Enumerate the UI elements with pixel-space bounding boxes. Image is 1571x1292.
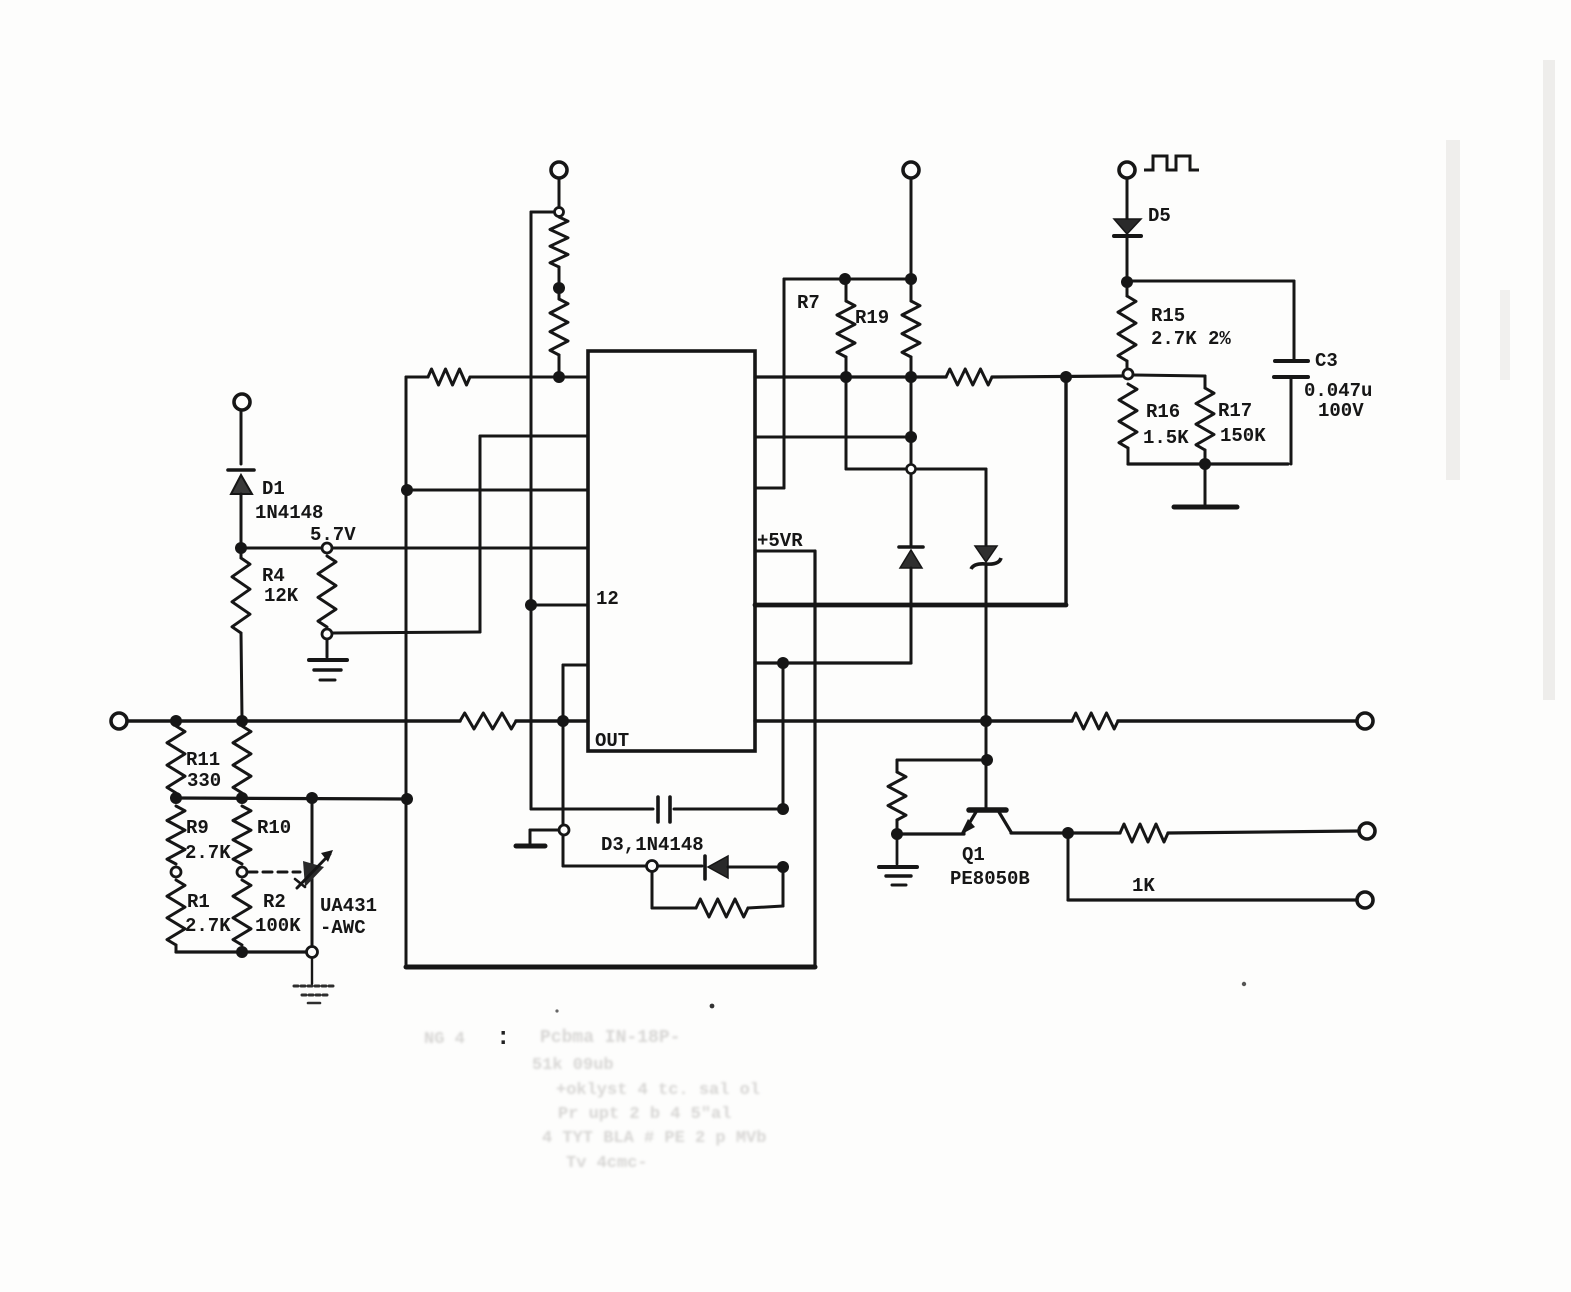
wire (bus y721 left segment) [127,719,460,722]
wire (right loop vertical x815) [813,551,816,967]
terminal P3 (square wave input) [1119,162,1135,178]
resistor (series in y721 bus left) [460,713,516,729]
resistor R9 2.7K [167,806,231,864]
wire (bottom loop y967) [406,965,815,970]
svg-text:100V: 100V [1318,400,1364,422]
wire (pin bus y377 right) [755,375,946,378]
wire (pin y490 of IC) [407,489,588,492]
node (ring x176 y872) [171,867,181,877]
node (ring x564 y830) [559,825,569,835]
node (ring x242 y872) [237,867,247,877]
ground (below R4) [309,660,347,680]
svg-text:100K: 100K [255,915,301,937]
wire (vertical x563 down to D3 net) [562,665,565,866]
wire [992,376,1122,377]
wire [240,410,243,464]
node (junction x911 y279) [905,273,917,285]
wire (pin y437) [755,436,911,439]
node (colon mark) [496,1025,510,1052]
node (junction x563 y721) [557,715,569,727]
wire (vertical x1066) [1064,377,1067,605]
svg-text:R17: R17 [1218,400,1252,422]
resistor (series y721 right) [1072,713,1118,729]
wire (bus y721 to IC OUT) [516,719,588,722]
svg-text:1N4148: 1N4148 [255,502,323,524]
node (junction x845 y279) [839,273,851,285]
resistor (x241 series to divider) [232,548,299,633]
wire [658,865,702,868]
svg-text:PE8050B: PE8050B [950,868,1030,890]
node (square wave symbol) [1144,156,1199,170]
op-amp U1 (control IC box) [588,351,755,752]
svg-text:Q1: Q1 [962,844,985,866]
wire [748,867,783,908]
node (junction x911 y437) [905,431,917,443]
wire [1126,178,1129,219]
regulator UA431-AWC [295,798,377,947]
node (junction x312 y798) [306,792,318,804]
terminal P5 (left output) [111,713,127,729]
svg-text:2.7K: 2.7K [185,842,231,864]
resistor R10 [233,806,291,864]
node (junction x1066 y377) [1060,371,1072,383]
wire (y798 rail) [176,798,407,799]
node (junction x986 y721) [980,715,992,727]
wire [326,639,329,657]
wire (bus y377 into IC) [470,376,588,379]
svg-text:Tv 4cmc-: Tv 4cmc- [566,1154,648,1173]
ground (Q1 emitter) [879,839,917,885]
svg-text:12: 12 [596,588,619,610]
node (junction x987 y760) [981,754,993,766]
node (faint ghost annotation text) [424,1028,766,1173]
svg-text:1.5K: 1.5K [1143,427,1189,449]
svg-text:R2: R2 [263,891,286,913]
diode D5 [1114,205,1171,236]
transistor Q1 PE8050B [950,762,1030,890]
svg-text:R16: R16 [1146,401,1180,423]
svg-text:D3,1N4148: D3,1N4148 [601,834,704,856]
wire (dashed ref line to UA431) [248,871,300,874]
resistor (parallel with D3) [696,899,748,917]
wire (vertical x783 y663-809) [782,663,785,809]
svg-text:330: 330 [187,770,221,792]
wire (bus y377 corner to resistor) [406,376,428,379]
wire (pin y488 stub) [755,487,784,490]
wire [558,178,561,207]
ground (below R17) [1174,464,1237,507]
svg-text:OUT: OUT [595,730,629,752]
wire (pin y436 of IC) [480,435,588,438]
resistor R19 [797,279,920,357]
svg-text:R19: R19 [855,307,889,329]
resistor (upper series, x559) [550,217,568,267]
resistor (series in y377 bus) [428,369,470,385]
svg-text:150K: 150K [1220,425,1266,447]
resistor (base-emitter, x897) [888,760,906,830]
wire [910,357,913,545]
node (hop ring x911 y469) [907,465,916,474]
resistor R7 [837,279,855,357]
svg-text:R11: R11 [186,749,220,771]
svg-text:R15: R15 [1151,305,1185,327]
wire [311,958,313,984]
resistor (parallel x242 upper) [233,726,251,793]
capacitor (feedback, unlabeled) [658,797,670,822]
svg-text:D1: D1 [262,478,285,500]
diode D1 1N4148 [228,470,323,524]
wire (cap line y809 left) [531,808,653,811]
node (5.7V junction at D1) [235,542,247,554]
wire [1204,450,1207,464]
svg-text::: : [496,1025,510,1052]
svg-text:51k 09ub: 51k 09ub [532,1056,614,1075]
node (x559 bus junction) [553,371,565,383]
wire (pin y605 thick) [755,603,1066,608]
svg-text:-AWC: -AWC [320,917,366,939]
wire (vertical x531 from P1 branch down to cap line) [530,212,533,809]
ground (bar type, left of D3 net) [516,844,545,849]
svg-text:Pr upt 2 b 4 5"al: Pr upt 2 b 4 5"al [558,1105,731,1124]
wire [531,211,554,214]
resistor (series y377 right) [946,369,992,385]
wire (vertical x480) [479,436,482,632]
wire (D3 line y866 left) [563,865,647,868]
node (ring at R4 bottom) [322,629,332,639]
wire (pin y665 stub) [563,664,588,667]
wire (y469 jog) [846,468,986,471]
resistor R11 330 [167,726,221,793]
node (junction x407 y799) [401,793,413,805]
svg-text:R9: R9 [186,817,209,839]
wire (collector rail y833) [1011,831,1120,834]
wire [558,355,561,374]
node (junction x176 y721) [170,715,182,727]
svg-text:UA431: UA431 [320,895,377,917]
svg-text:R4: R4 [262,565,285,587]
resistor R16 1.5K [1119,384,1189,449]
diode D3 1N4148 [601,834,728,879]
svg-text:2.7K: 2.7K [185,915,231,937]
terminal P1 (top left input) [551,162,567,178]
resistor (lower series, x559) [550,299,568,355]
node (ring x312 y952) [307,947,318,958]
ground -- none; faint scan shading (decorative) [1446,60,1555,700]
wire (top rail y279) [784,278,911,281]
wire (vertical x911 upper) [910,178,913,279]
wire [240,494,243,545]
node (junction x1127 y282) [1121,276,1133,288]
wire (vertical x784) [783,279,786,488]
resistor R15 2.7K 2% [1118,282,1231,361]
node (junction x176 y798) [170,792,182,804]
svg-text:+oklyst 4 tc. sal ol: +oklyst 4 tc. sal ol [556,1081,760,1100]
node (junction x783 y663) [777,657,789,669]
svg-text:R7: R7 [797,292,820,314]
terminal P2 (top middle) [903,162,919,178]
ground (below UA431) [294,986,334,1003]
wire (drop x1068 and y900 rail) [1068,833,1356,900]
node (stray ink dots) [555,982,1246,1013]
wire [728,866,779,869]
resistor 1K [1120,824,1168,897]
svg-text:C3: C3 [1315,350,1338,372]
wire (cap line y809 right) [674,808,783,811]
wire (stub to bar ground) [530,830,559,843]
wire (base rail y760) [897,759,987,762]
diode (in x911 branch, points up) [899,547,923,663]
wire (bottom rail y952) [176,945,306,952]
wire (to R17 top) [1133,375,1205,388]
svg-text:+5VR: +5VR [757,530,803,552]
svg-text:1K: 1K [1132,875,1155,897]
wire (x846 down) [845,357,848,469]
node (ring x1128 y374) [1123,369,1133,379]
svg-text:12K: 12K [264,585,299,607]
svg-text:R10: R10 [257,817,291,839]
node (junction x531 y605, pin 12) [525,599,537,611]
svg-text:NG 4: NG 4 [424,1030,465,1049]
svg-text:4 TYT BLA # PE 2 p MVb: 4 TYT BLA # PE 2 p MVb [542,1129,766,1148]
resistor R17 150K [1196,388,1266,450]
wire (to P7) [1168,831,1359,833]
wire [1128,448,1288,464]
node (junction x897 y834) [891,828,903,840]
terminal P6 (right upper) [1357,713,1373,729]
svg-text:0.047u: 0.047u [1304,380,1372,402]
svg-text:Pcbma IN-18P-: Pcbma IN-18P- [540,1028,680,1048]
wire [241,633,242,718]
node (junction x242 y798) [236,792,248,804]
node (junction x1068 y833) [1062,827,1074,839]
terminal P4 (D1 input) [234,394,250,410]
node (junction x242 y952) [236,946,248,958]
svg-text:5.7V: 5.7V [310,524,356,546]
terminal P8 (right lower) [1357,892,1373,908]
svg-text:2.7K 2%: 2.7K 2% [1151,328,1231,350]
wire (+5VR stub from IC) [755,530,815,552]
wire (sub loop down from ring) [652,872,696,908]
wire (to P6) [1118,719,1357,722]
node (junction x242 y721) [236,715,248,727]
wire (y281 to C3 top) [1127,281,1294,359]
resistor R1 2.7K [167,880,231,945]
wire [1126,237,1129,279]
node (junction x846 y377) [840,371,852,383]
node (junction x911 y377) [905,371,917,383]
wire [1126,361,1129,369]
wire (pin 12 line) [531,604,588,607]
wire (x986 down to diode) [985,469,988,545]
svg-text:R1: R1 [187,891,210,913]
node (junction ring below P1) [555,208,564,217]
capacitor C3 0.047u 100V [1274,350,1372,464]
wire (left loop vertical x406) [405,377,408,967]
node (junction x783 y867) [777,861,789,873]
node (junction x783 y809) [777,803,789,815]
wire (emitter rail y834) [897,832,964,835]
wire (5.7V line y548) [241,524,588,548]
node (ring x652 y866) [647,861,658,872]
node (ring at 5.7V R4 top) [322,543,332,553]
wire (pin y663) [755,661,911,664]
diode (in x986 branch, points down) [971,546,1001,810]
wire (bus y721 right) [755,719,1072,722]
node (mid junction x559) [553,267,565,299]
svg-text:D5: D5 [1148,205,1171,227]
node (junction x407 y490) [401,484,413,496]
node (junction x1205 y464) [1199,458,1211,470]
resistor R2 100K [233,880,301,945]
resistor R4 12K (shunt x327) [318,556,336,627]
terminal P7 (right middle) [1359,823,1375,839]
wire (y632 to R4 bottom) [333,632,480,633]
